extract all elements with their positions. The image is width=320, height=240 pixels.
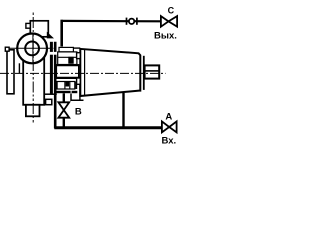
motor body [80,49,140,96]
valve A [162,121,177,132]
pump casing lower body [23,58,44,105]
pump horizontal crosshair [10,47,57,49]
bracket divider [58,56,77,58]
motor front bosses [77,53,81,59]
discharge box left tab [26,23,30,28]
bar gap (white) [49,52,58,55]
svg-text:Вых.: Вых. [154,30,177,41]
casing ear top-right [47,32,54,39]
svg-text:B: B [75,106,82,117]
svg-text:C: C [168,6,175,16]
crosshair inside circle [16,47,48,49]
wire: discharge riser pipe [60,20,63,47]
union/check fitting ticks [126,18,128,25]
coupling hub [56,65,78,78]
valve B top stub [63,93,65,103]
valve B [58,102,69,117]
valve C [161,16,177,27]
baseplate ledge left [45,93,57,95]
baseplate step [71,94,84,101]
flange top tab [5,47,9,51]
wire: top discharge pipe to outlet [61,20,161,23]
motor shaft stub [145,65,160,78]
axis centerline (pump/motor shaft, dash-dot) [0,72,166,74]
bracket-motor top line [73,47,80,49]
discharge nozzle flange [59,47,73,52]
svg-text:A: A [165,112,172,123]
union fitting circle [129,19,134,24]
pump volute circle [17,34,47,64]
motor fan cowl line [143,56,145,90]
bracket box [58,52,77,65]
baseplate ledge mid [56,91,70,93]
coupling lower blocks [57,82,75,90]
pump foot block [26,105,40,117]
baseplate ledge right piece [72,91,78,93]
suction drop pipe (left leg of bottom pipe) [54,42,57,128]
pump inner circle [25,42,39,56]
small block right of casing bottom [46,99,52,104]
valve B bottom stub [63,118,65,127]
motor front foot edge [79,84,81,100]
svg-text:Вх.: Вх. [162,136,177,147]
pump discharge box [30,21,48,37]
pump vertical centerline [32,13,34,125]
motor bearing shield line [84,49,86,95]
motor support leg [122,93,124,128]
pump suction flange (left) [7,50,14,94]
wire: bottom inlet pipe [54,126,162,129]
rear casing bar [50,42,53,94]
casing left inner line [18,63,20,73]
bracket dark square [68,57,73,64]
